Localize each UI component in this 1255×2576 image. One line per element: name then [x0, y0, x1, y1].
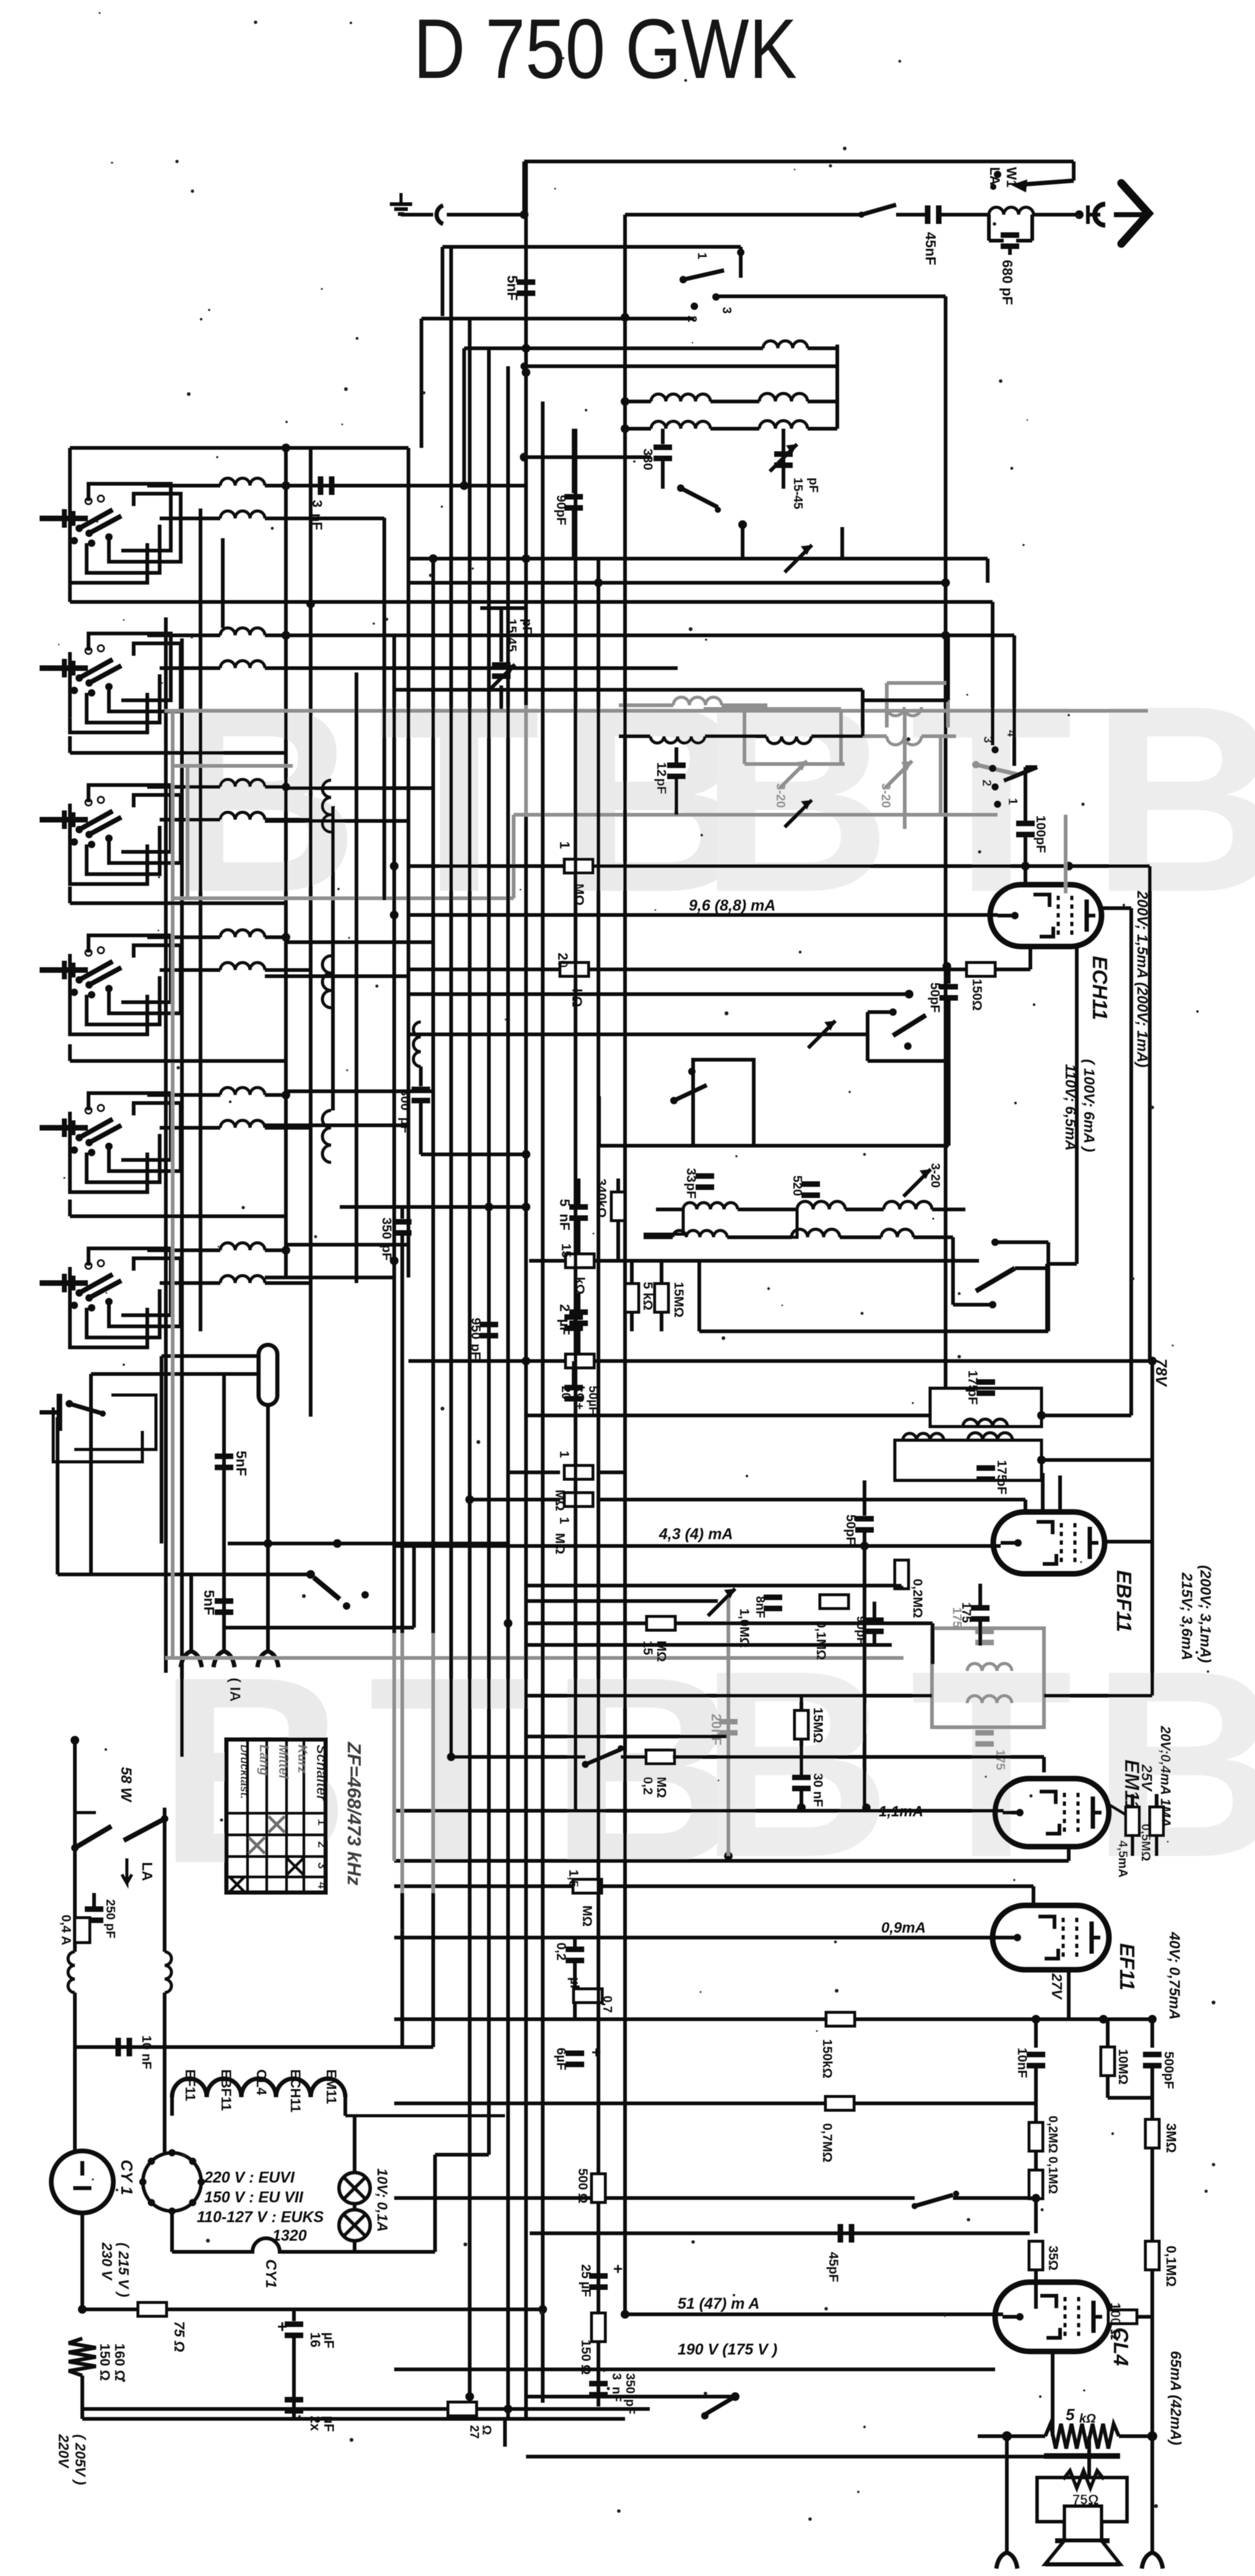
wire 0,2M line: [451, 1755, 585, 1759]
gray osc loop a: [704, 707, 841, 711]
svg-text:45nF: 45nF: [923, 232, 939, 265]
resistor 15MOhm h: [647, 1616, 675, 1630]
wire grid EBF11: [394, 1544, 1001, 1548]
wire loop c: [109, 643, 181, 711]
tube socket: [143, 2153, 201, 2211]
svg-text:220 V : EUVI: 220 V : EUVI: [204, 2169, 295, 2186]
svg-text:3MΩ: 3MΩ: [1163, 2123, 1179, 2153]
tube EBF11: [993, 1512, 1105, 1574]
wire tube right to IF: [1102, 906, 1131, 910]
wire: [526, 1694, 932, 1698]
svg-text:( 205V ): ( 205V ): [72, 2434, 88, 2485]
wire: [408, 992, 909, 996]
svg-text:pF: pF: [684, 1183, 698, 1199]
svg-text:25V: 25V: [1138, 1764, 1155, 1792]
coil: [147, 1248, 220, 1252]
svg-text:kΩ: kΩ: [1079, 2412, 1096, 2426]
svg-text:( 215 V ): ( 215 V ): [116, 2243, 132, 2297]
svg-text:150 V : EU VII: 150 V : EU VII: [204, 2189, 304, 2206]
svg-text:90pF: 90pF: [854, 1616, 868, 1645]
svg-text:16: 16: [308, 2332, 323, 2347]
svg-text:0,1MΩ: 0,1MΩ: [1163, 2246, 1179, 2287]
resistor 1,5M: [573, 1879, 602, 1893]
antenna connector: [1095, 204, 1105, 225]
svg-text:220V: 220V: [56, 2434, 72, 2468]
switch osc terminals: [991, 746, 999, 753]
svg-text:EF11: EF11: [183, 2069, 198, 2101]
coil antenna: [989, 207, 1033, 215]
capacitor 1nF: [564, 1315, 583, 1320]
wire loop d: [88, 633, 171, 700]
wire: [58, 1573, 311, 1576]
svg-text:51 (47) m A: 51 (47) m A: [678, 2295, 759, 2312]
svg-text:215V; 3,6mA: 215V; 3,6mA: [1178, 1572, 1195, 1660]
svg-text:20nF: 20nF: [709, 1714, 724, 1745]
vertical coil g4: [322, 956, 331, 1008]
wire EM11 bottom: [1067, 1847, 1071, 1861]
wire bottoms of buses: [394, 2407, 526, 2411]
capacitor 950pF: [480, 1322, 498, 1328]
svg-text:Kurz: Kurz: [295, 1745, 309, 1774]
capacitor 175pF: [971, 1605, 990, 1611]
coil: [147, 1093, 220, 1097]
switch wave band: [40, 1125, 88, 1131]
switch LA W1: [1072, 161, 1076, 181]
wire cap chain: [222, 1374, 226, 1651]
svg-text:175: 175: [993, 1750, 1007, 1770]
switch: [705, 2397, 735, 2415]
ground: [400, 193, 403, 204]
capacitor 5nF on bus: [517, 280, 535, 285]
left bus wires: [164, 617, 168, 1673]
wire antenna line: [625, 213, 861, 217]
wire 190V: [394, 2368, 995, 2371]
capacitor 2x uF: [285, 2397, 303, 2403]
wire grid EF11: [394, 1936, 1003, 1939]
resistor 0,1M on bus: [1145, 2241, 1159, 2270]
svg-text:50pF: 50pF: [843, 1514, 858, 1545]
svg-text:Ω: Ω: [576, 2193, 590, 2204]
resistor 20k: [560, 963, 589, 976]
svg-text:1: 1: [695, 252, 709, 259]
capacitor 680pF bypass: [987, 215, 991, 241]
capacitor 30pF: [865, 1618, 884, 1623]
svg-text:2: 2: [315, 1841, 329, 1848]
capacitor 45pF: [530, 2231, 1030, 2235]
capacitor 500pF: [1150, 2019, 1154, 2048]
speckle noise: [423, 392, 426, 395]
wire: [526, 1735, 727, 1738]
resistor 1M b: [470, 1498, 560, 1501]
IF coils row B: [644, 1235, 673, 1239]
svg-text:110V; 6,5mA: 110V; 6,5mA: [1062, 1064, 1079, 1151]
svg-text:520: 520: [790, 1175, 804, 1196]
resistor 1M a: [508, 1470, 560, 1474]
coil: [160, 1281, 220, 1285]
wire grid CL4: [625, 2312, 1003, 2316]
resistor 150 Ohm b: [592, 2313, 605, 2342]
svg-text:3: 3: [309, 500, 325, 507]
wire loop a: [70, 652, 147, 732]
svg-text:0,4 A: 0,4 A: [59, 1915, 73, 1945]
speaker field coil 5kOhm: [1045, 2424, 1119, 2449]
wire: [526, 1584, 902, 1587]
resistor 10M loop: [1106, 2019, 1110, 2046]
gray switch osc: [976, 765, 1018, 775]
antenna arrow: [1114, 212, 1144, 217]
wire row2: [286, 633, 1014, 637]
capacitor 50uF: [564, 1385, 583, 1391]
svg-text:10nF: 10nF: [1015, 2048, 1029, 2078]
svg-text:100pF: 100pF: [1033, 815, 1048, 853]
svg-text:27V: 27V: [1049, 1973, 1065, 2000]
wire node 3 to right bus: [716, 294, 946, 298]
wire loop c: [109, 494, 181, 562]
svg-text:0,9mA: 0,9mA: [881, 1920, 926, 1936]
svg-text:680 pF: 680 pF: [999, 260, 1016, 305]
svg-text:65mA (42mA): 65mA (42mA): [1167, 2351, 1184, 2445]
coil: [147, 633, 220, 637]
svg-text:15: 15: [559, 1243, 573, 1258]
svg-text:4: 4: [315, 1882, 329, 1889]
wire speaker leads: [1087, 2436, 1091, 2478]
resistor on 78V: [566, 1354, 594, 1368]
wire 78V: [408, 1359, 1150, 1363]
wire pill top: [162, 1354, 259, 1358]
capacitor 6uF: [566, 2051, 584, 2056]
svg-text:3: 3: [610, 2373, 623, 2380]
wire rows to mid bus: [286, 633, 394, 637]
svg-text:150: 150: [579, 2340, 593, 2361]
wire: [526, 1599, 718, 1603]
svg-text:90pF: 90pF: [554, 495, 568, 525]
wire loop d: [88, 1093, 171, 1160]
ferrite rod: [259, 1345, 277, 1405]
coil: [147, 935, 220, 939]
svg-text:25: 25: [579, 2264, 593, 2279]
resistor 0,7M: [826, 2097, 854, 2110]
resistor 0,2M: [621, 1755, 648, 1759]
svg-text:nF: nF: [309, 513, 325, 530]
switch: [674, 1085, 707, 1101]
capacitor 3nF: [286, 484, 524, 487]
switch wave band: [40, 1281, 88, 1286]
resistor 0,2M: [1034, 2103, 1038, 2122]
table X marks: [269, 1816, 285, 1832]
bus down right: [1150, 2098, 1154, 2552]
coil RF b pair: [625, 400, 651, 403]
svg-text:pF: pF: [965, 1389, 980, 1405]
switch: [394, 2196, 915, 2200]
wire top frame: [524, 160, 1074, 163]
wire: [442, 245, 741, 249]
coil osc black b: [767, 736, 811, 744]
capacitor 90pF: [572, 429, 576, 493]
svg-text:CY 1: CY 1: [118, 2160, 136, 2195]
wire: [228, 1542, 509, 1545]
svg-text:3-20: 3-20: [879, 783, 892, 808]
switch arm: [1004, 767, 1037, 781]
coil: [160, 968, 220, 972]
svg-text:340kΩ: 340kΩ: [594, 1179, 608, 1218]
wire: [699, 1329, 1048, 1333]
gray osc coils: [887, 707, 921, 716]
svg-text:350: 350: [379, 1217, 394, 1239]
capacitor 300pF: [412, 1087, 430, 1093]
lamp 2: [339, 2210, 370, 2241]
svg-text:6µF: 6µF: [554, 2048, 568, 2071]
svg-text:0,2MΩ 0,1MΩ: 0,2MΩ 0,1MΩ: [1046, 2116, 1059, 2194]
wire grid line: [408, 864, 1150, 868]
svg-text:200V; 1,5mA (200V; 1mA): 200V; 1,5mA (200V; 1mA): [1134, 890, 1150, 1067]
svg-text:58 W: 58 W: [118, 1767, 134, 1803]
resistor 150 Ohm zig: [69, 2338, 96, 2376]
wire loop b: [87, 826, 160, 874]
capacitor 520pF: [801, 1182, 820, 1187]
wire: [526, 2395, 735, 2398]
wire: [1042, 1458, 1152, 1462]
svg-text:Schalter: Schalter: [314, 1745, 330, 1801]
wire: [526, 1643, 892, 1647]
svg-text:9,6 (8,8) mA: 9,6 (8,8) mA: [689, 897, 775, 914]
svg-text:(200V; 3,1mA): (200V; 3,1mA): [1197, 1565, 1214, 1663]
coil: [160, 818, 220, 822]
capacitor gray 20nF: [719, 1719, 738, 1725]
trimmer 3-20: [904, 1169, 931, 1196]
capacitor 33pF: [696, 1174, 714, 1179]
resistor 0,7M left: [574, 1989, 602, 2003]
svg-text:3: 3: [315, 1862, 329, 1869]
choke N: [165, 1952, 171, 1993]
svg-text:pF: pF: [806, 478, 820, 492]
IF transformer 1: [930, 1388, 1042, 1427]
svg-text:LA: LA: [139, 1862, 155, 1881]
svg-text:LA: LA: [987, 167, 1003, 185]
loop under row A: [644, 1209, 683, 1234]
wire pill left: [91, 1372, 259, 1376]
coil RF a: [464, 346, 763, 350]
wire loop a: [70, 502, 147, 583]
resistor 150 Ohm: [967, 963, 995, 976]
wire: [394, 2102, 1036, 2105]
svg-text:0,1MΩ: 0,1MΩ: [814, 1621, 828, 1660]
svg-text:2: 2: [557, 1304, 572, 1312]
svg-text:Drucktast.: Drucktast.: [238, 1745, 251, 1799]
wire CL4 bottom: [1051, 2351, 1054, 2436]
capacitor 45nF: [896, 213, 926, 217]
svg-text:EBF11: EBF11: [1113, 1570, 1136, 1632]
wire: [524, 455, 651, 459]
gray trimmer 3-20 b: [885, 761, 912, 788]
wire grid to tube: [408, 913, 998, 917]
wire loop d: [88, 935, 171, 1002]
wire loop a: [70, 954, 147, 1034]
band table: [226, 1740, 326, 1892]
resistor 340kOhm: [611, 1192, 625, 1221]
wire loop c: [109, 1103, 181, 1171]
resistors right of EM11: [1109, 1805, 1132, 1819]
trimmer: [708, 1589, 735, 1616]
lamp 1: [339, 2173, 370, 2204]
wire loop d: [88, 1248, 171, 1315]
svg-text:30 nF: 30 nF: [811, 1773, 825, 1807]
wire grid EM11: [394, 1809, 1004, 1813]
wire pill bottom: [266, 1405, 270, 1651]
svg-text:pF: pF: [623, 2399, 637, 2414]
coil: [147, 785, 220, 789]
capacitor 2uF: [569, 1310, 588, 1315]
svg-text:12: 12: [654, 762, 668, 776]
capacitor 5nF left: [569, 1204, 588, 1210]
svg-text:8nF: 8nF: [753, 1596, 767, 1618]
wire loop a: [70, 1267, 147, 1347]
switch antenna: [861, 205, 896, 215]
capacitor 12pF: [667, 763, 686, 768]
switch: [889, 1008, 897, 1016]
mains lead-in: [73, 1808, 77, 1952]
wire row2 corner: [382, 518, 386, 900]
bus 200V: [1148, 866, 1152, 1361]
gray trimmer 3-20: [780, 761, 807, 788]
wire to coil: [941, 213, 988, 217]
svg-text:350: 350: [623, 2373, 637, 2394]
wire loop d: [88, 785, 171, 852]
svg-text:EF11: EF11: [1116, 1943, 1139, 1990]
coil: [160, 666, 220, 670]
wire loop c: [109, 945, 181, 1013]
switch wave band: [40, 666, 88, 671]
IF coils row A: [656, 1208, 683, 1211]
wire bottom: [82, 2417, 505, 2421]
wire anode line EF11: [1067, 1970, 1071, 2019]
speaker: [1064, 2506, 1102, 2541]
svg-text:150Ω: 150Ω: [970, 979, 984, 1011]
wire: [311, 517, 384, 520]
IF transformer 2: [895, 1440, 1042, 1480]
wire loop b: [87, 674, 160, 723]
oscillator block 2: [693, 1060, 754, 1146]
switch: [585, 1750, 621, 1764]
svg-text:0,2: 0,2: [554, 1943, 568, 1960]
svg-text:2: 2: [980, 779, 993, 786]
svg-text:190 V (175 V ): 190 V (175 V ): [678, 2341, 777, 2358]
svg-text:175: 175: [959, 1602, 973, 1623]
svg-text:150kΩ: 150kΩ: [820, 2039, 834, 2079]
heater chain: [172, 2079, 345, 2097]
wire: [408, 557, 988, 560]
gray feed into tube: [1064, 815, 1067, 893]
svg-text:MΩ: MΩ: [571, 883, 587, 906]
trimmer 15-45pF mid: [480, 606, 524, 610]
switch wave band: [40, 968, 88, 973]
resistor 35 Ohm: [1029, 2241, 1043, 2270]
svg-text:1: 1: [557, 1451, 571, 1458]
svg-text:5 kΩ: 5 kΩ: [640, 1282, 655, 1310]
wire anode EBF11: [1106, 1540, 1152, 1543]
svg-text:Ω: Ω: [480, 2425, 493, 2435]
svg-text:nF: nF: [610, 2387, 623, 2402]
svg-text:10MΩ: 10MΩ: [1116, 2049, 1130, 2085]
svg-text:W1: W1: [1004, 167, 1019, 187]
switch band 1: [683, 270, 724, 280]
wire screen line: [394, 1884, 1033, 1888]
svg-text:D 750 GWK: D 750 GWK: [413, 2, 797, 97]
wire mains line: [82, 2308, 543, 2311]
svg-text:EM11: EM11: [324, 2069, 339, 2104]
wire loop c: [109, 795, 181, 863]
switch wave band: [40, 817, 88, 823]
svg-text:150 Ω: 150 Ω: [97, 2343, 113, 2381]
choke L: [68, 1952, 75, 1993]
capacitor 16uF: [292, 2309, 296, 2321]
svg-text:CL4: CL4: [254, 2069, 269, 2095]
svg-text:5nF: 5nF: [201, 1590, 217, 1615]
svg-text:+: +: [609, 2264, 627, 2273]
capacitor 5nF: [215, 1454, 233, 1459]
svg-text:250 pF: 250 pF: [103, 1899, 117, 1938]
svg-text:15: 15: [640, 1641, 655, 1655]
svg-text:1,5: 1,5: [566, 1870, 580, 1888]
coil RF c pair: [625, 427, 651, 431]
svg-text:MΩ: MΩ: [654, 1777, 668, 1798]
switch: [306, 1570, 315, 1579]
wire: [408, 581, 946, 585]
gray IF transformer: [932, 1628, 1044, 1727]
wire loop b: [87, 976, 160, 1024]
coil: [160, 517, 220, 520]
svg-text:1: 1: [557, 841, 572, 849]
svg-text:EBF11: EBF11: [218, 2069, 234, 2111]
wire cathode down: [1075, 948, 1079, 1264]
svg-text:5nF: 5nF: [504, 275, 520, 301]
coil: [160, 1126, 220, 1130]
wire 15k line: [529, 1259, 979, 1263]
svg-text:( 100V; 6mA ): ( 100V; 6mA ): [1080, 1059, 1097, 1152]
group top lines: [70, 751, 286, 755]
resistor 3M on bus: [1145, 2119, 1159, 2148]
svg-text:1,1mA: 1,1mA: [879, 1803, 923, 1820]
coil: [147, 484, 220, 487]
resistor 27 Ohm: [294, 2407, 446, 2411]
svg-text:950: 950: [468, 1318, 483, 1339]
wire: [225, 1626, 414, 1629]
wire ground to bus: [401, 213, 433, 217]
svg-text:10 nF: 10 nF: [139, 2035, 153, 2069]
wire: [82, 2407, 294, 2411]
capacitor 350pF b: [589, 2381, 608, 2387]
trimmer 15-45pF: [782, 429, 785, 489]
wire lamp return: [355, 2250, 435, 2254]
vertical coil g3: [322, 780, 331, 832]
wire g7 to mains: [73, 1740, 77, 1808]
resistor 150k: [826, 2012, 855, 2026]
capacitor 10nF: [1034, 2019, 1038, 2048]
svg-text:20: 20: [555, 953, 571, 968]
svg-text:27: 27: [467, 2425, 481, 2439]
black rect above osc: [863, 698, 948, 702]
capacitor 5nF b: [215, 1599, 233, 1604]
coil osc black a: [650, 736, 705, 743]
wire loop b: [87, 1289, 160, 1337]
svg-text:160 Ω: 160 Ω: [112, 2343, 127, 2381]
switch wave band 7: [40, 1410, 59, 1415]
wire: [1046, 1242, 1050, 1331]
wire EBF11 top: [1058, 1475, 1062, 1513]
mains switch: [75, 1826, 111, 1848]
svg-text:110-127 V : EUKS: 110-127 V : EUKS: [197, 2209, 324, 2226]
capacitor 350pF: [400, 1207, 404, 1219]
wire g2 top line: [70, 600, 993, 604]
